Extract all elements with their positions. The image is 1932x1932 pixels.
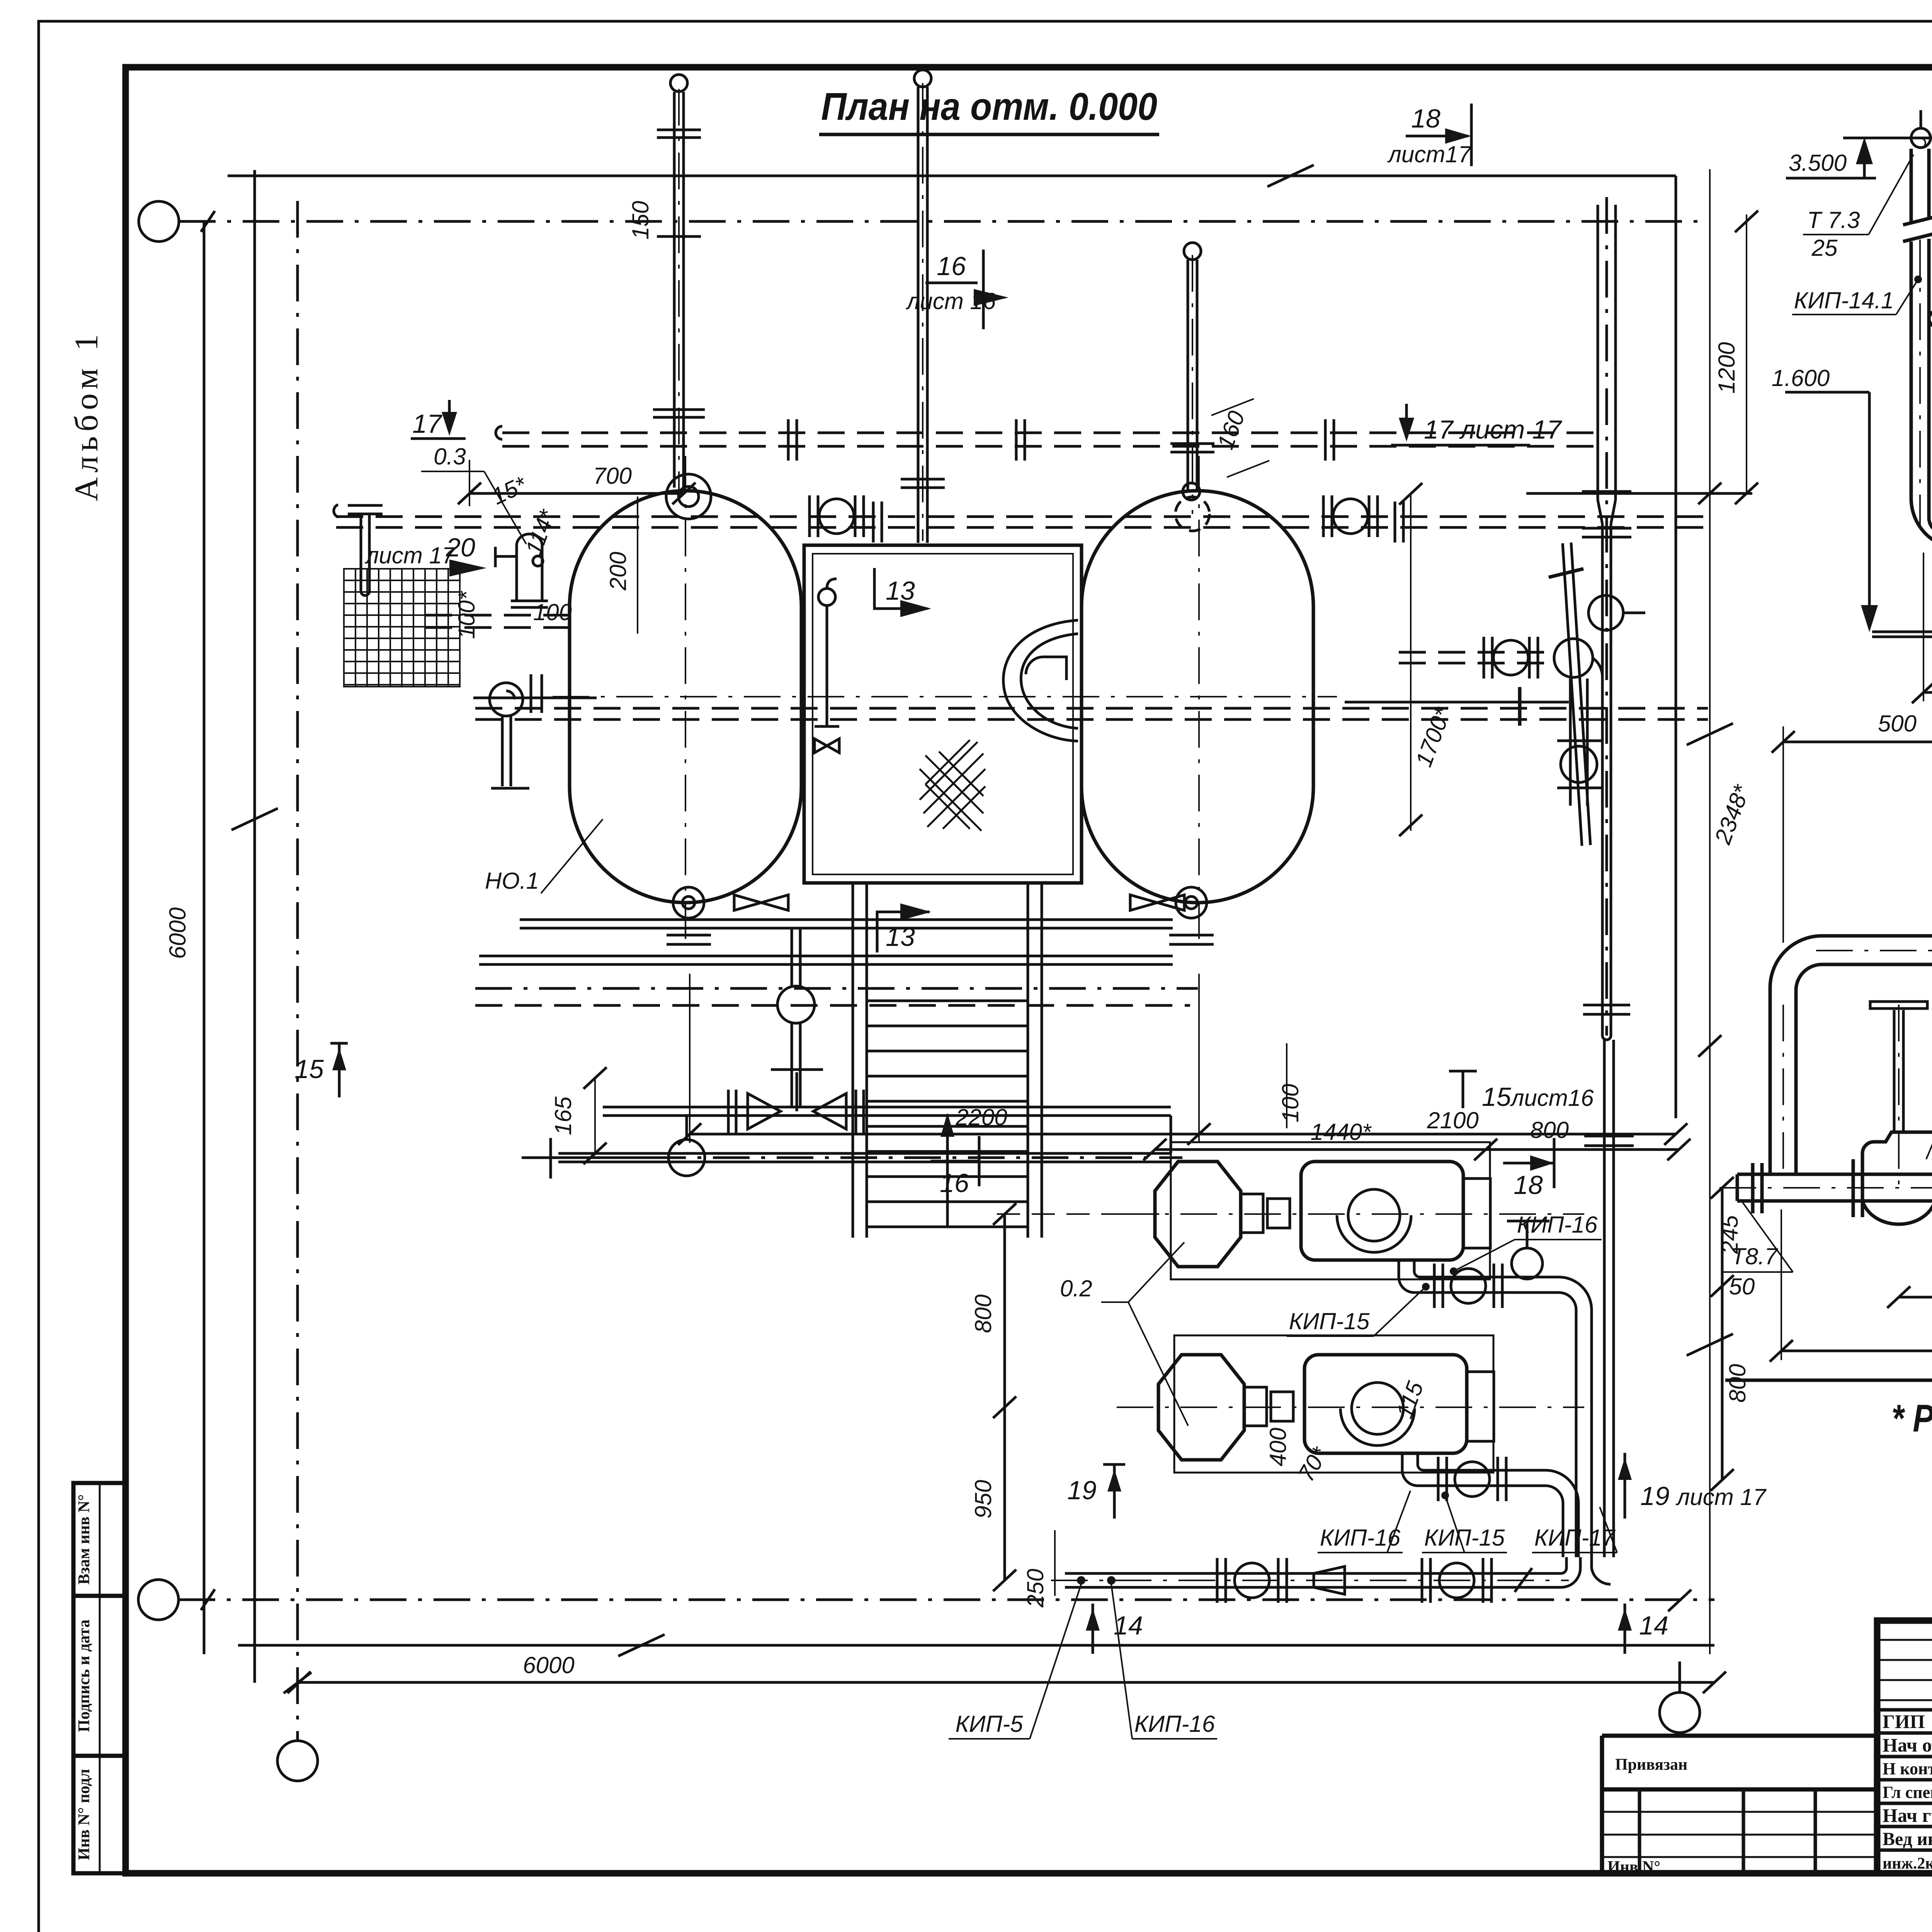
svg-text:КИП-16: КИП-16 [1320, 1525, 1401, 1551]
svg-text:инж.2кат: инж.2кат [1883, 1855, 1932, 1872]
lower valve on branch [1561, 746, 1597, 782]
top pipe dashed pair [502, 433, 1596, 446]
tank bottom nozzles [673, 887, 704, 918]
svg-text:ГИП: ГИП [1883, 1711, 1925, 1732]
svg-text:КИП-16: КИП-16 [1134, 1711, 1215, 1737]
dim 245/800 right vertical [1721, 1188, 1724, 1480]
svg-text:Взам инв N°: Взам инв N° [75, 1494, 93, 1585]
svg-text:План на отм. 0.000: План на отм. 0.000 [821, 85, 1157, 128]
svg-text:0.2: 0.2 [1060, 1276, 1092, 1301]
tank HO.1 left (plan capsule) [570, 491, 801, 903]
flange pair left end [1753, 1163, 1932, 1213]
svg-text:КИП-16: КИП-16 [1517, 1212, 1598, 1238]
bowtie valves at tank bottoms [734, 895, 788, 910]
vid top run pipe [1770, 936, 1932, 1174]
hatched grid pad [344, 569, 460, 687]
bottom dim line 6000 [299, 1681, 1714, 1684]
svg-text:Вед инж: Вед инж [1883, 1829, 1932, 1849]
pump unit 1 coupling [1241, 1194, 1263, 1233]
svg-text:17: 17 [412, 409, 442, 439]
svg-text:Гл спец: Гл спец [1883, 1783, 1932, 1802]
svg-text:* Размеры для справок.: * Размеры для справок. [1891, 1397, 1932, 1440]
svg-text:16: 16 [937, 252, 966, 281]
svg-text:500: 500 [1878, 711, 1917, 736]
crosshatch patch on platform [920, 740, 985, 831]
svg-text:100: 100 [533, 599, 572, 625]
svg-text:2100: 2100 [1427, 1107, 1478, 1133]
svg-text:19 лист 17: 19 лист 17 [1640, 1481, 1767, 1511]
svg-text:18: 18 [1514, 1170, 1543, 1200]
svg-text:Т 7.3: Т 7.3 [1807, 207, 1860, 233]
pump unit 1 baseplate [1171, 1142, 1490, 1279]
top thin line of plan [228, 165, 1676, 187]
tank left top nozzle [666, 474, 711, 519]
svg-text:50: 50 [1729, 1274, 1755, 1299]
left margin stamp boxes [73, 1483, 126, 1873]
lower piping below tanks [479, 918, 1214, 1107]
svg-text:13: 13 [886, 922, 915, 952]
svg-text:Инв N°: Инв N° [1607, 1858, 1660, 1876]
riser P2 center [901, 70, 945, 543]
sign-off thin empty rows [1877, 1640, 1932, 1700]
vertical boundary line x659 with break [231, 170, 278, 1683]
riser P1 over left tank [653, 75, 705, 488]
svg-text:25: 25 [1811, 235, 1838, 261]
right vertical dim lines of plan [1675, 176, 1677, 1118]
svg-text:2200: 2200 [955, 1104, 1007, 1130]
pump unit 2 motor [1158, 1355, 1244, 1460]
central platform rect [804, 545, 1082, 883]
tank centerlines [553, 456, 1337, 939]
axis bubble B bottom-left [138, 1580, 179, 1620]
vid bottom valve left [1853, 1132, 1932, 1224]
svg-text:400: 400 [1265, 1428, 1291, 1466]
svg-text:14: 14 [1639, 1611, 1668, 1640]
svg-text:1.600: 1.600 [1772, 365, 1830, 391]
elbow circle to dashed line [1554, 639, 1593, 677]
svg-text:Н контр: Н контр [1883, 1759, 1932, 1778]
bottom suction run [1065, 1557, 1611, 1603]
svg-text:1200: 1200 [1714, 342, 1740, 393]
svg-text:19: 19 [1067, 1476, 1097, 1505]
tank right (plan capsule) [1082, 491, 1313, 903]
svg-text:100: 100 [1277, 1084, 1303, 1122]
svg-text:800: 800 [1725, 1364, 1750, 1403]
lower gate valve run [603, 1070, 1171, 1134]
razrez top run [1929, 311, 1932, 533]
svg-text:3.500: 3.500 [1789, 150, 1847, 176]
svg-text:165: 165 [550, 1096, 576, 1135]
razrez riser pipe [1903, 149, 1932, 549]
svg-text:100*: 100* [454, 591, 480, 639]
vertical axis dashdot x770 [296, 201, 299, 1741]
svg-text:15лист16: 15лист16 [1482, 1082, 1594, 1112]
sump hood inside platform [1003, 620, 1078, 741]
flanged joints on dashed runs [788, 419, 1403, 543]
sign-off texts [1883, 1711, 1932, 1873]
pump unit 2 pump body [1304, 1355, 1467, 1453]
svg-text:КИП-17: КИП-17 [1534, 1525, 1616, 1551]
gauge circle on riser top [1911, 128, 1930, 148]
dim 800/950 left vertical [1003, 1214, 1006, 1580]
svg-text:НО.1: НО.1 [485, 868, 539, 894]
dim row 500 650 250 300 [1899, 1296, 1932, 1299]
pump unit 2 axis [1117, 1406, 1584, 1408]
axis bubble D bottom-middle [1660, 1692, 1700, 1733]
svg-text:Нач гр.: Нач гр. [1883, 1804, 1932, 1826]
line from bubble D [1679, 1662, 1681, 1692]
svg-text:16: 16 [940, 1168, 969, 1198]
svg-text:0.3: 0.3 [434, 444, 466, 469]
horizontal axis line top [179, 220, 1710, 223]
svg-text:950: 950 [970, 1480, 996, 1519]
pump unit 1 axis [1117, 1213, 1584, 1215]
pump unit 1 motor [1155, 1162, 1241, 1267]
pump unit 2 coupling [1244, 1387, 1267, 1426]
svg-text:700: 700 [593, 463, 632, 489]
dim row 2200 2100 [690, 1133, 1676, 1136]
svg-text:17 лист 17: 17 лист 17 [1424, 415, 1562, 444]
horizontal axis line bottom [179, 1599, 1714, 1601]
svg-text:800: 800 [1530, 1117, 1569, 1143]
stairs [852, 883, 854, 1238]
right tall pipe P4 [1582, 205, 1631, 1117]
svg-text:1440*: 1440* [1311, 1119, 1372, 1145]
axis bubble A top-left [139, 201, 179, 241]
riser P3 over right tank [1170, 243, 1214, 490]
svg-text:Нач отд: Нач отд [1883, 1734, 1932, 1756]
svg-text:КИП-15: КИП-15 [1289, 1308, 1370, 1334]
svg-text:лист17: лист17 [1387, 141, 1472, 167]
svg-text:14: 14 [1114, 1611, 1143, 1640]
dashed pair into left tank [425, 615, 570, 628]
svg-text:200: 200 [605, 552, 631, 591]
dim row 1440* 800 [1155, 1148, 1679, 1151]
valves on tank top run [810, 495, 1538, 679]
vid bottom run pipe [1737, 1174, 1932, 1201]
svg-text:18: 18 [1411, 104, 1440, 133]
svg-text:Альбом 1: Альбом 1 [68, 330, 105, 501]
svg-text:Инв N° подл: Инв N° подл [75, 1769, 93, 1860]
vertical pipe to plan riser [1584, 1117, 1634, 1557]
side branch with handle [1345, 701, 1569, 704]
dashed pair into elbow [1399, 652, 1554, 663]
pump unit 1 pump body [1301, 1162, 1463, 1260]
dashed pair mid tanks [475, 708, 1708, 719]
pump unit 2 baseplate [1174, 1335, 1493, 1473]
svg-text:Привязан: Привязан [1615, 1756, 1687, 1774]
svg-text:КИП-14.1: КИП-14.1 [1794, 287, 1894, 313]
sign-off row lines [1877, 1710, 1932, 1850]
faucet in platform [818, 588, 835, 605]
svg-text:6000: 6000 [165, 907, 190, 959]
drain valve cluster [473, 674, 597, 788]
discharge piping unit 1 [1399, 1221, 1592, 1557]
svg-text:КИП-5: КИП-5 [955, 1711, 1023, 1737]
bottom dim line upper [238, 1634, 1714, 1656]
valve on P4 [1588, 595, 1623, 630]
svg-text:лист 17: лист 17 [365, 543, 456, 568]
svg-text:20: 20 [446, 533, 475, 562]
svg-text:150: 150 [628, 201, 653, 240]
svg-text:6000: 6000 [523, 1652, 574, 1678]
vertical boundary line x528 [203, 221, 206, 1654]
dim 1700* [1410, 494, 1412, 831]
level gauge cylinder [495, 534, 548, 607]
floor line 1.600 [1872, 631, 1932, 633]
svg-text:250: 250 [1022, 1569, 1048, 1608]
privyazan table [1602, 1734, 1877, 1738]
svg-text:800: 800 [970, 1294, 996, 1333]
svg-text:15: 15 [294, 1054, 324, 1084]
title block outer [1877, 1621, 1932, 1873]
svg-text:Подпись и дата: Подпись и дата [75, 1619, 93, 1732]
bottom tee run [551, 1116, 1171, 1179]
discharge piping unit 2 [1402, 1453, 1578, 1557]
svg-text:КИП-15: КИП-15 [1424, 1525, 1505, 1551]
pipe left stub with cap [334, 505, 383, 595]
axis bubble C bottom-left lower [277, 1741, 318, 1781]
diagonal impulse pipe [1563, 543, 1582, 846]
svg-text:Т8.7: Т8.7 [1731, 1243, 1779, 1269]
